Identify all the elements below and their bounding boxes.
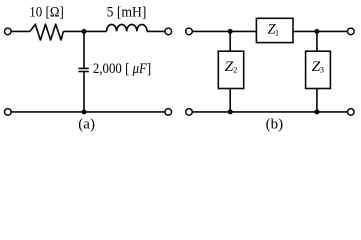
svg-text:10 [Ω]: 10 [Ω] (29, 4, 64, 20)
svg-text:2: 2 (233, 64, 237, 74)
svg-text:3: 3 (320, 64, 324, 74)
svg-text:5 [mH]: 5 [mH] (107, 4, 147, 20)
svg-text:2,000 [ μF]: 2,000 [ μF] (93, 61, 151, 77)
svg-text:(b): (b) (266, 117, 284, 133)
svg-text:1: 1 (275, 28, 279, 38)
svg-text:(a): (a) (78, 117, 95, 133)
